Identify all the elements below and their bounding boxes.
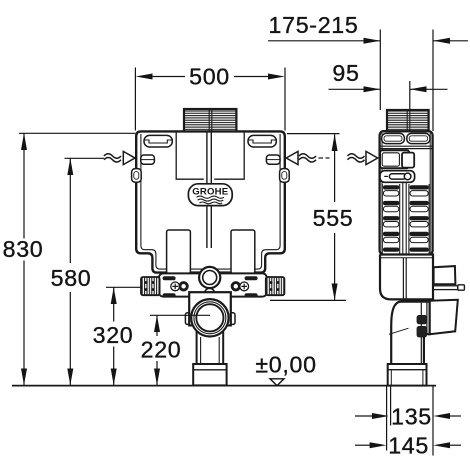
elbow clamp detail — [417, 315, 427, 337]
dim 320 extension line — [106, 286, 142, 288]
dim 830 line — [23, 133, 25, 238]
dim 830 extension line top — [19, 132, 135, 134]
rail knurled end left — [141, 277, 160, 295]
dim 580 line — [69, 158, 71, 263]
outlet bend circles — [191, 299, 228, 336]
frame leg right — [231, 230, 255, 274]
side clip right — [266, 155, 280, 164]
dim 500 extension lines — [134, 68, 136, 131]
wc connector piece — [430, 300, 458, 334]
svg-text:830: 830 — [3, 236, 44, 262]
rail knurled end right — [266, 277, 285, 295]
dim 135 lines — [355, 415, 373, 417]
elbow pipe inner wall — [420, 303, 422, 364]
dim 555 extension bottom — [270, 299, 346, 301]
dim 175-215 extension lines — [379, 30, 381, 111]
svg-text:580: 580 — [51, 265, 92, 291]
arrow 220 up — [154, 315, 160, 332]
mounting rail bar — [159, 273, 267, 296]
arrow 135 left — [372, 413, 389, 419]
dim 555 extension top — [287, 133, 340, 135]
rail screw ring left — [180, 283, 187, 290]
svg-text:±0,00: ±0,00 — [255, 352, 316, 378]
lower housing side — [380, 255, 433, 300]
wc outlet box — [434, 266, 456, 284]
svg-text:220: 220 — [141, 337, 182, 363]
water inlet symbol left — [104, 151, 135, 164]
dim 220 line — [156, 315, 158, 336]
top slot right — [248, 135, 276, 147]
dim 175-215 lines — [268, 40, 380, 42]
elbow joint line — [426, 302, 428, 334]
svg-text:95: 95 — [332, 60, 359, 86]
svg-text:145: 145 — [388, 433, 429, 459]
arrow 175-215 left-side — [364, 38, 381, 44]
rail screw cross right — [240, 282, 249, 291]
outlet housing box — [189, 292, 231, 325]
side top slot left — [382, 133, 405, 143]
dim 95 lines — [329, 88, 381, 90]
frame leg left — [167, 230, 191, 274]
flush valve circle on rail — [199, 267, 220, 288]
svg-text:320: 320 — [93, 322, 134, 348]
arrow 580 down — [67, 369, 73, 386]
dim 95 extension line — [409, 81, 411, 110]
arrowheads — [21, 38, 450, 448]
arrow 830 down — [21, 369, 27, 386]
arrow 95 left-side — [364, 86, 381, 92]
water inlet symbol right (tank) — [286, 151, 329, 164]
arrow 145 right — [433, 442, 450, 448]
rail slot marks — [163, 276, 258, 297]
arrow 500 left — [136, 74, 153, 80]
tank side inner wall lines — [382, 133, 430, 254]
actuator box side (hatched) — [387, 110, 429, 131]
rib louvres dark bars — [383, 185, 429, 252]
flush pipe (center, front) — [207, 131, 211, 248]
svg-text:175-215: 175-215 — [269, 12, 359, 38]
wall bracket rod — [433, 285, 464, 290]
arrow 555 down — [332, 284, 338, 301]
service opening rectangle — [176, 132, 244, 179]
lower housing divider — [403, 258, 406, 300]
dim 555 line — [334, 134, 336, 202]
arrow 135 right — [433, 413, 450, 419]
arrow 145 left — [370, 442, 387, 448]
svg-text:GROHE: GROHE — [192, 187, 229, 198]
outlet down-pipe upper — [197, 320, 224, 364]
arrow 830 up — [21, 133, 27, 150]
rail screw ring right — [232, 283, 239, 290]
side pipe socket — [388, 364, 427, 386]
svg-text:500: 500 — [189, 64, 230, 90]
latch strip side — [380, 171, 415, 183]
top slot left — [144, 135, 172, 147]
water inlet symbol side-view — [348, 151, 378, 164]
cistern tank front outline — [136, 131, 285, 272]
rib channel center — [382, 183, 429, 255]
side top slot right — [407, 133, 430, 143]
dim 580 extension line — [65, 157, 105, 159]
outlet pipe inner walls — [201, 337, 220, 364]
svg-text:555: 555 — [313, 205, 354, 231]
arrow 95 right-side — [410, 86, 427, 92]
tank side outline — [380, 131, 433, 254]
rail center notch — [205, 288, 215, 293]
arrow 500 right — [268, 74, 285, 80]
arrow 175-215 right-side — [433, 38, 450, 44]
outlet housing ears — [185, 313, 235, 325]
ground reference line — [12, 385, 436, 387]
dim 135/145 reference lines — [386, 386, 388, 451]
arrow 320 up — [111, 287, 117, 304]
GROHE logo — [188, 184, 232, 206]
dim 500 line — [150, 76, 185, 78]
inlet valve box side — [380, 150, 414, 168]
elbow leader line — [389, 328, 409, 334]
dim 145 lines — [355, 444, 371, 446]
dim 220 extension line — [150, 314, 210, 316]
flush elbow side — [391, 302, 429, 365]
dim 320 line — [113, 287, 115, 321]
datum triangle ±0,00 — [270, 379, 284, 386]
rail screw cross left — [171, 282, 180, 291]
side tab left — [132, 169, 142, 183]
outlet pipe socket — [193, 364, 226, 385]
svg-text:135: 135 — [391, 404, 432, 430]
arrow 220 down — [154, 369, 160, 386]
actuator access box front (hatched) — [184, 109, 236, 131]
side tab right — [280, 169, 290, 183]
arrow 555 up — [332, 134, 338, 151]
arrow 320 down — [111, 369, 117, 386]
arrow 580 up — [67, 158, 73, 175]
side clip left — [141, 155, 155, 164]
rib louvre slots — [383, 191, 428, 243]
side horizontal seams — [380, 146, 433, 148]
